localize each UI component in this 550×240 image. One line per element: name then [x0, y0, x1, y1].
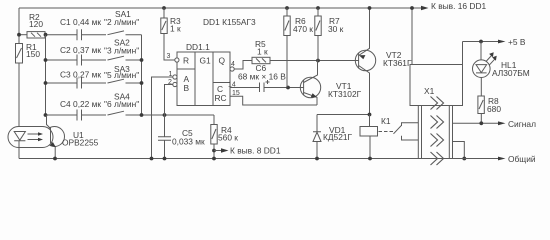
svg-text:C4 0,22 мк: C4 0,22 мк — [60, 99, 101, 109]
op-amp U1 DD1.1 block — [177, 52, 230, 106]
connector X1 — [410, 65, 463, 106]
wire row3 — [46, 82, 142, 84]
wire row4 — [46, 115, 215, 125]
svg-text:1: 1 — [169, 71, 173, 78]
svg-text:"3 л/мин": "3 л/мин" — [104, 46, 139, 56]
node top bus arrow К выв. 16 DD1 — [421, 6, 429, 10]
svg-text:560 к: 560 к — [218, 133, 238, 143]
U1 light arrows — [28, 134, 39, 140]
resistor R5 — [252, 57, 270, 63]
pin 15 wire — [230, 96, 317, 105]
svg-text:DD1 К155АГ3: DD1 К155АГ3 — [203, 17, 256, 27]
wire left cap bus — [45, 35, 47, 115]
wire R5 to VT2 base — [270, 60, 359, 62]
svg-text:КТ361Г: КТ361Г — [383, 58, 412, 68]
svg-text:680: 680 — [487, 104, 501, 114]
svg-text:0,033 мк: 0,033 мк — [172, 137, 205, 147]
pin 1 — [173, 75, 177, 79]
node Общий — [498, 157, 506, 161]
svg-text:1 к: 1 к — [257, 47, 268, 57]
bus junction dots — [53, 157, 57, 161]
svg-text:14: 14 — [228, 82, 236, 89]
svg-text:470 к: 470 к — [293, 24, 313, 34]
svg-text:DD1.1: DD1.1 — [186, 42, 210, 52]
pin 2 — [173, 82, 177, 86]
node junction left bus row4 — [44, 113, 48, 117]
svg-text:К1: К1 — [381, 116, 391, 126]
svg-text:C2 0,37 мк: C2 0,37 мк — [60, 45, 101, 55]
pin 14 wire — [230, 87, 259, 89]
svg-text:X1: X1 — [424, 86, 435, 96]
resistor R6 — [285, 6, 289, 10]
node junction left bus row1 — [44, 33, 48, 37]
svg-text:"5 л/мин": "5 л/мин" — [104, 70, 139, 80]
wire row1 left — [19, 34, 27, 36]
resistor R1 — [16, 44, 23, 64]
transistor VT2 — [355, 50, 375, 70]
capacitor C3 — [77, 78, 82, 89]
svg-text:К выв. 8 DD1: К выв. 8 DD1 — [230, 146, 281, 156]
LED HL1 — [480, 42, 482, 61]
svg-text:68 мк × 16 В: 68 мк × 16 В — [238, 72, 286, 82]
wire row1 to C1 — [45, 34, 77, 36]
switch SA3 — [108, 79, 125, 83]
svg-text:К выв. 16 DD1: К выв. 16 DD1 — [431, 1, 487, 11]
HL1 light arrows — [486, 55, 496, 65]
svg-text:RC: RC — [215, 93, 227, 103]
switch SA4 — [108, 111, 125, 115]
wire row1 to SA1 — [82, 34, 107, 36]
svg-text:G1: G1 — [200, 56, 212, 66]
pin 3 circle — [175, 58, 179, 62]
relay K1 coil — [369, 115, 371, 127]
capacitor C4 — [77, 110, 82, 121]
wire top bus — [19, 7, 421, 9]
svg-text:4: 4 — [231, 61, 235, 68]
switch SA1 — [108, 31, 142, 35]
wire left vertical — [18, 8, 20, 132]
wire bottom bus — [19, 158, 499, 160]
svg-text:"6 л/мин": "6 л/мин" — [104, 99, 139, 109]
svg-text:+5 В: +5 В — [508, 37, 526, 47]
svg-text:АЛ307БМ: АЛ307БМ — [492, 68, 530, 78]
relay K1 contact — [379, 131, 394, 133]
wire U1 LED cathode — [18, 141, 20, 159]
transistor VT1 — [300, 77, 320, 97]
svg-text:30 к: 30 к — [328, 24, 344, 34]
svg-text:120: 120 — [29, 19, 43, 29]
capacitor C5 — [158, 115, 171, 159]
optocoupler U1 — [45, 127, 65, 147]
svg-text:КД521Г: КД521Г — [323, 132, 353, 142]
resistor R4 — [211, 125, 217, 145]
node junction left bus row3 — [44, 81, 48, 85]
wire VT1 emitter to relay — [317, 114, 370, 116]
capacitor C2 — [77, 55, 82, 66]
wire X1 to common — [453, 142, 465, 159]
capacitor C6 — [260, 83, 304, 93]
resistor R7 — [316, 6, 320, 10]
diode U1 LED — [14, 132, 25, 141]
svg-text:150: 150 — [26, 49, 40, 59]
node junction R2 left — [17, 33, 21, 37]
svg-text:OPB2255: OPB2255 — [62, 138, 99, 148]
svg-text:Сигнал: Сигнал — [508, 119, 536, 129]
node К выв. 8 DD1 — [214, 150, 221, 152]
switch SA2 — [108, 56, 125, 60]
capacitor C1 — [77, 29, 82, 40]
svg-text:C3 0,27 мк: C3 0,27 мк — [60, 70, 101, 80]
U1 phototransistor — [50, 128, 52, 144]
X1 rails — [418, 106, 452, 159]
resistor R2 — [27, 32, 45, 38]
node +5 В — [463, 41, 500, 43]
resistor R8 — [478, 96, 484, 114]
svg-text:Общий: Общий — [508, 154, 536, 164]
svg-text:15: 15 — [232, 90, 240, 97]
svg-text:3: 3 — [167, 53, 171, 60]
svg-text:"2 л/мин": "2 л/мин" — [104, 17, 139, 27]
diode VD1 — [316, 115, 318, 132]
svg-text:Q: Q — [219, 56, 226, 66]
wire SA bus — [141, 35, 143, 115]
svg-text:R: R — [183, 56, 189, 66]
svg-text:1 к: 1 к — [170, 24, 181, 34]
resistor R3 — [162, 6, 166, 10]
pin 4 — [230, 67, 234, 71]
svg-text:КТ3102Г: КТ3102Г — [328, 89, 362, 99]
node junction left bus row2 — [44, 58, 48, 62]
wire row2 — [46, 59, 142, 61]
svg-text:B: B — [184, 83, 190, 93]
svg-text:2: 2 — [168, 79, 172, 86]
svg-text:C1 0,44 мк: C1 0,44 мк — [60, 17, 101, 27]
X1 contact chevrons — [431, 97, 444, 166]
node Сигнал — [453, 122, 500, 124]
